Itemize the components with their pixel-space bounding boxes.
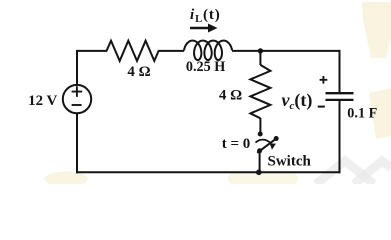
inductor L1 coil 0.25 H: [184, 41, 232, 60]
middle branch wire from top node: [259, 51, 261, 65]
switch motion arrow curve: [256, 140, 271, 144]
svg-text:t = 0: t = 0: [222, 136, 251, 152]
switch motion arrowhead: [270, 143, 276, 149]
wire resistor to switch upper terminal: [259, 118, 261, 134]
plus sign inside source: [72, 86, 83, 97]
right wire upper segment: [339, 50, 341, 93]
watermark bottom-right chevrons: [316, 161, 374, 184]
watermark top-right: [362, 2, 391, 58]
capacitor minus sign: [318, 106, 325, 108]
svg-text:iL(t): iL(t): [190, 7, 221, 25]
wire switch to bottom: [259, 151, 261, 173]
switch blade end dot: [274, 136, 279, 141]
wire left side below source: [76, 113, 78, 173]
svg-text:4 Ω: 4 Ω: [127, 64, 150, 80]
bottom wire: [76, 171, 341, 173]
switch blade: [257, 139, 276, 153]
switch lower terminal dot: [257, 148, 262, 153]
arrow under iL(t): [190, 27, 210, 29]
capacitor C1 plates: [326, 93, 354, 100]
voltage source V1 circle: [63, 85, 91, 113]
wire top-left + resistor R1 zigzag + lead to inductor: [77, 41, 184, 61]
svg-text:Switch: Switch: [268, 154, 312, 170]
switch upper terminal dot: [258, 132, 263, 137]
minus sign inside source: [72, 104, 82, 106]
svg-text:0.1 F: 0.1 F: [347, 105, 377, 121]
watermark bottom-middle: [228, 173, 298, 184]
wire inductor to top-right corner: [232, 50, 340, 52]
watermark right-middle: [369, 88, 391, 139]
node junction dot top (middle branch): [258, 48, 263, 53]
right wire lower segment: [339, 100, 341, 173]
svg-text:vc(t): vc(t): [282, 90, 313, 112]
svg-text:4 Ω: 4 Ω: [219, 87, 242, 103]
svg-text:0.25 H: 0.25 H: [186, 59, 225, 75]
node junction dot bottom: [256, 170, 262, 176]
resistor R2 vertical zigzag: [250, 65, 270, 118]
svg-text:12 V: 12 V: [28, 93, 57, 109]
watermark bottom-left: [44, 172, 88, 187]
capacitor plus sign: [320, 76, 328, 84]
wire left side above source: [76, 50, 78, 85]
